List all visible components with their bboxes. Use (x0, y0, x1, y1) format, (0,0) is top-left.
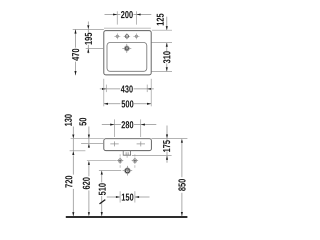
extension rear edge left (73, 28, 104, 30)
dimension 500 ticks (103, 79, 105, 107)
dimension 125 line (166, 17, 168, 30)
dimension 200 line (105, 14, 121, 16)
dimension 430 arrows (102, 88, 106, 90)
dimension 430 line (100, 88, 120, 90)
dimension 50 line (88, 127, 90, 135)
dimension 310 arrows (166, 43, 168, 47)
dimension 125 text (157, 14, 164, 26)
dimension 130 arrows (72, 135, 74, 139)
waste outlet (front) (123, 166, 133, 176)
dimension 280 arrows (110, 124, 114, 126)
dimension 200 extension ticks (116, 11, 118, 24)
dimension 470 arrows (74, 29, 76, 33)
floor line (66, 216, 188, 218)
fixing hole right (132, 154, 138, 167)
dimension 620 line (88, 165, 90, 176)
basin outer rim (top view) (104, 31, 151, 75)
tap cross right (front) (137, 143, 145, 145)
basin slab (front view) (104, 139, 152, 151)
dimension 195 line (87, 22, 89, 25)
dimension 850 arrows (181, 139, 183, 143)
tap hole left (114, 33, 120, 39)
dimension 310 line (166, 43, 168, 51)
drain stub inner lines (125, 152, 127, 155)
dimension 150 ticks (119, 191, 121, 202)
dimension 510 text (99, 183, 106, 195)
dimension 130 line (72, 127, 74, 135)
extension rear edge right (152, 29, 172, 31)
dimension 200 text (121, 11, 133, 18)
dimension 150 line (107, 196, 120, 198)
extension outlet left (99, 169, 121, 171)
dimension 720 line (72, 155, 74, 174)
dimension 150 text (122, 194, 134, 201)
dimension 500 text (122, 100, 134, 107)
tap hole right (133, 33, 139, 39)
extension underside left (70, 150, 86, 152)
drain (top view) (122, 44, 131, 53)
dimension 510 line (101, 175, 103, 183)
dimension 50 arrows (88, 135, 90, 139)
dimension 430 text (121, 85, 133, 92)
fixing hole left (117, 154, 123, 167)
dimension 720 arrow (72, 212, 74, 216)
dimension 310 text (163, 51, 170, 63)
extension fixing holes (87, 160, 117, 162)
dimension 720 text (65, 176, 72, 188)
dimension 125 arrow (166, 26, 168, 30)
drain stub centre dash (126, 155, 128, 158)
extension rim top right (151, 138, 187, 140)
oblique tick on 510 (100, 200, 106, 204)
extension bowl top right (152, 42, 173, 44)
dimension 130 text (65, 114, 72, 126)
extension drain left (86, 48, 104, 50)
dimension 175 line (166, 126, 168, 135)
dimension 280 line (102, 124, 121, 126)
dimension 280 text (121, 121, 133, 128)
extension rim top left (71, 138, 104, 140)
dimension 175 text (163, 140, 170, 152)
dimension 50 text (79, 118, 86, 126)
dimension 150 arrows (116, 196, 120, 198)
dimension 470 line (75, 29, 77, 47)
dimension 470 text (72, 49, 79, 61)
extension 50 bottom (81, 142, 104, 144)
tap hole middle (124, 33, 130, 39)
drain stub under slab (123, 151, 130, 156)
tap cross left (front) (110, 143, 118, 145)
dimension 195 text (85, 33, 92, 45)
dimension 195 arrows (87, 25, 89, 29)
dimension 500 line (104, 103, 121, 105)
dimension 175 arrows (166, 134, 168, 138)
dimension 620 text (83, 177, 90, 189)
rear lip line (104, 27, 151, 29)
basin bowl (top view) (107, 43, 147, 72)
dimension 850 text (178, 179, 185, 191)
dimension 620 arrows (88, 161, 90, 165)
dimension 500 arrows (104, 103, 108, 105)
dimension 280 ticks (113, 119, 115, 137)
extension 175 bottom (132, 155, 172, 157)
dimension 510 arrows (101, 170, 103, 174)
extension bowl bottom right (152, 71, 173, 73)
dimension 850 line (181, 143, 183, 177)
dimension 430 ticks (105, 85, 107, 93)
dimension 200 arrows (113, 13, 117, 15)
